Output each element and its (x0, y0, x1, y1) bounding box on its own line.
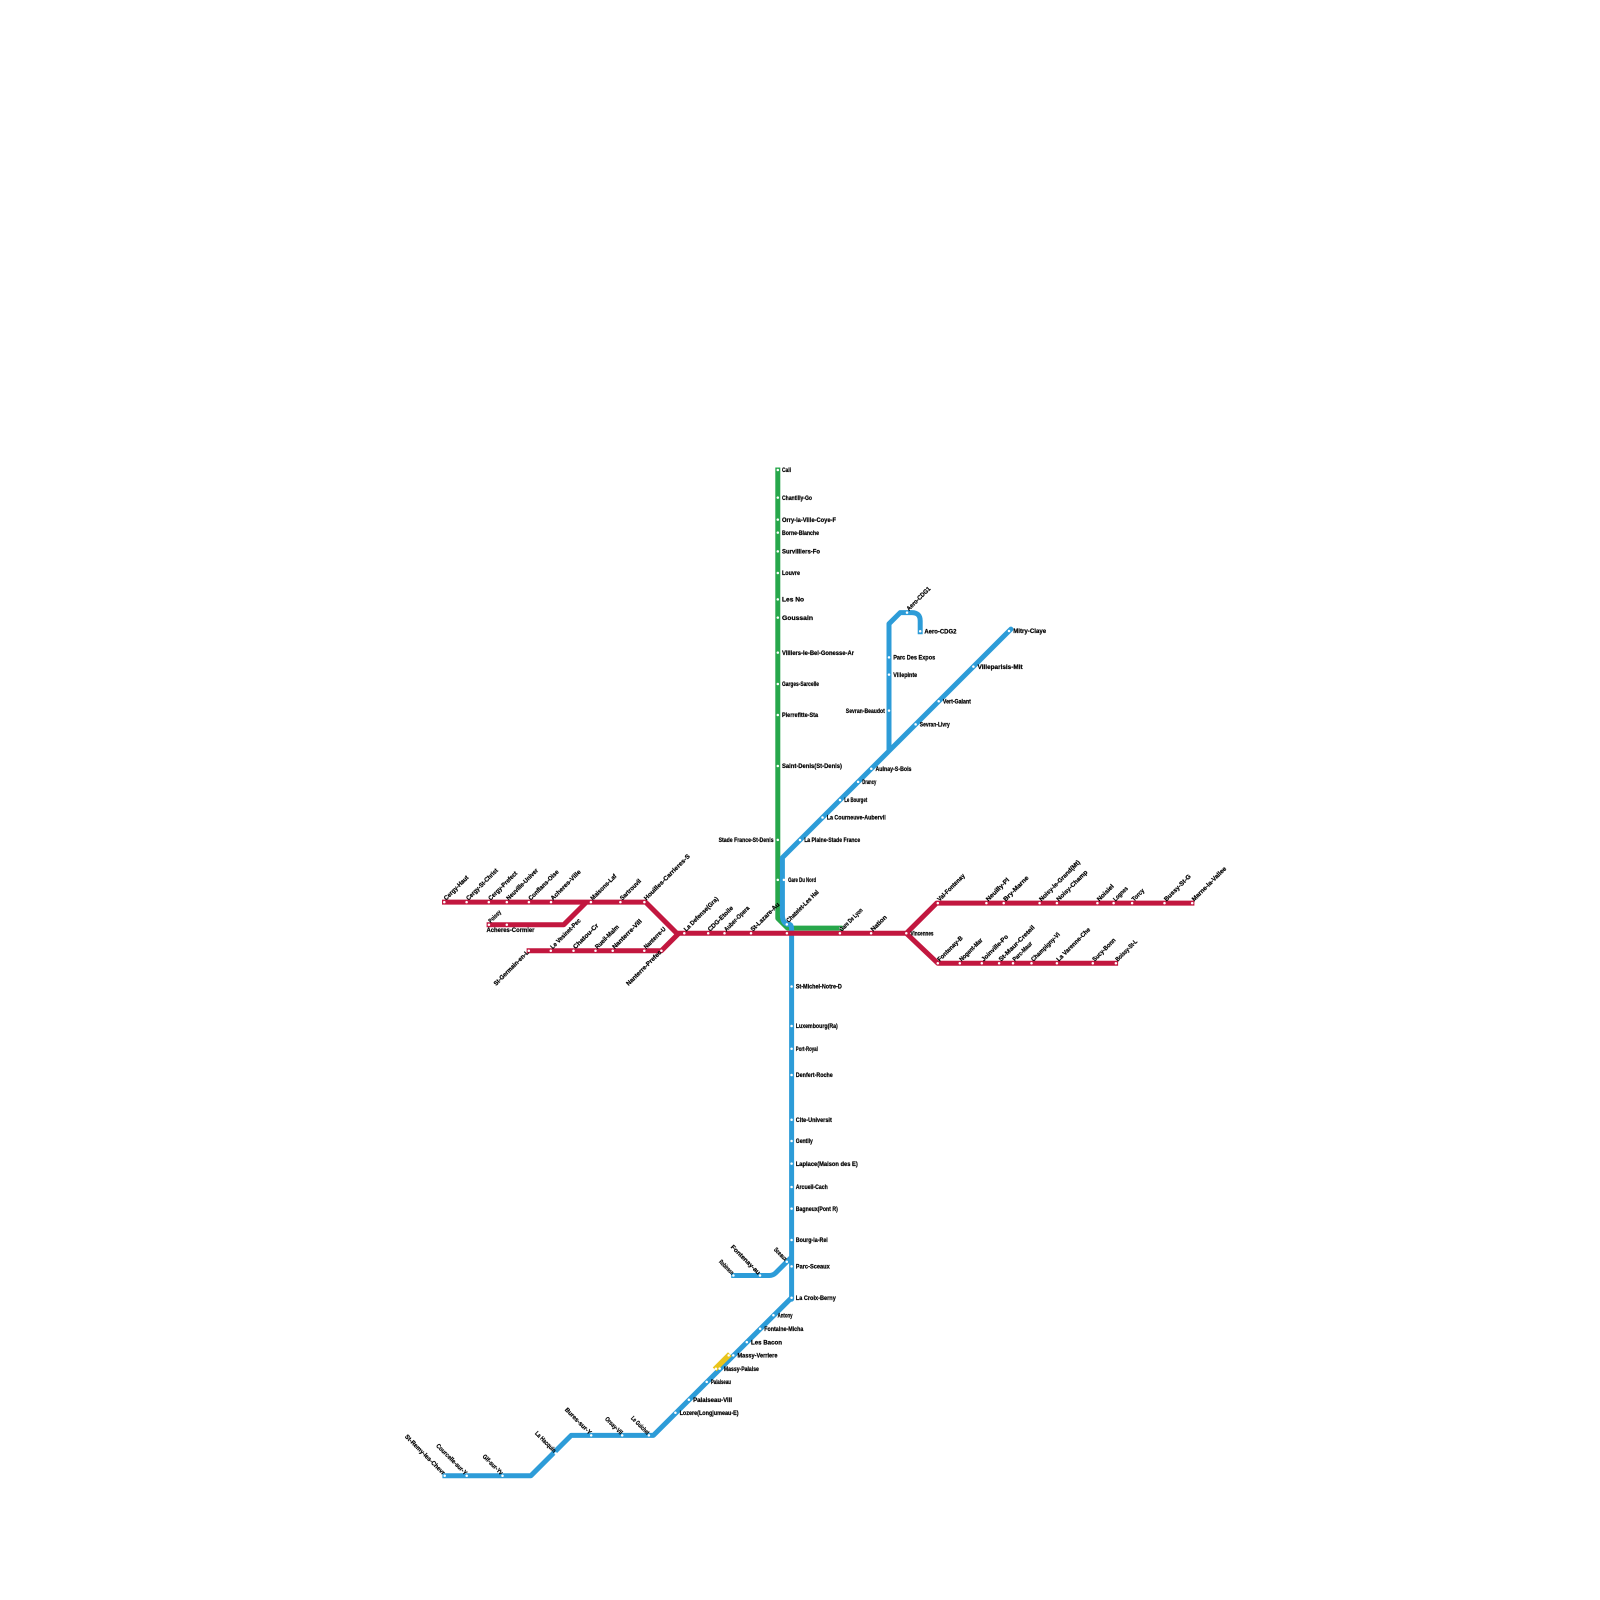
svg-text:Antony: Antony (778, 1312, 793, 1319)
svg-text:Luxembourg(Ra): Luxembourg(Ra) (796, 1023, 838, 1030)
station Le Guichet (629, 1415, 651, 1437)
station Bry-Marne (1002, 874, 1031, 904)
station Fontenay-B (936, 935, 965, 965)
station Palaiseau (705, 1379, 731, 1386)
station Parc-Maur (1011, 940, 1034, 964)
station La Croix-Berny (790, 1295, 836, 1302)
svg-text:Lozere(Longjumeau-E): Lozere(Longjumeau-E) (680, 1410, 739, 1417)
svg-text:Acheres-Cormier: Acheres-Cormier (487, 927, 536, 934)
station marker at 715.9,1368.8 (715, 1368, 718, 1371)
station Mitry-Claye (1008, 628, 1047, 635)
svg-text:Gentily: Gentily (796, 1138, 813, 1145)
station Chatelet-Les Hal (785, 889, 821, 926)
svg-text:St-Michel-Notre-D: St-Michel-Notre-D (796, 984, 842, 991)
station Massy-Palaise (718, 1366, 759, 1373)
station Garges-Sarcelle (777, 681, 820, 688)
station marker at 728.7,1355.4 (727, 1354, 730, 1357)
svg-text:Fontaine-Micha: Fontaine-Micha (764, 1326, 803, 1333)
station Fontaine-Micha (759, 1326, 804, 1333)
station Gare Du Nord (783, 877, 817, 884)
svg-text:Port-Royal: Port-Royal (796, 1046, 818, 1053)
station Boissy-St-L (1114, 938, 1139, 964)
station Rueil-Malm (594, 924, 621, 952)
station Cergy-Haut (443, 874, 471, 904)
station Orry-la-Ville-Coye-F (777, 517, 837, 524)
station Goussain (777, 615, 814, 622)
station Le Bourget (839, 797, 868, 804)
RER B south branch (blue) (442, 1298, 791, 1476)
station Aero-CDG1 (905, 585, 932, 614)
station Marne-la-Vallee (1191, 865, 1229, 904)
station Stade France-St-Denis (719, 837, 779, 844)
svg-text:Bourg-la-Rei: Bourg-la-Rei (796, 1237, 828, 1244)
station Survilliers-Fo (777, 549, 821, 556)
svg-text:Louvre: Louvre (782, 570, 800, 577)
station Joinville-Po (980, 933, 1010, 964)
station Bagneux(Pont R) (790, 1206, 837, 1213)
RER A west bottom branch (red) (527, 933, 679, 951)
station Palaiseau-Vill (688, 1397, 733, 1404)
svg-text:Aero-CDG2: Aero-CDG2 (924, 628, 956, 635)
station Sartrouvil (619, 878, 643, 904)
station Conflans-Oise (527, 868, 561, 903)
station Chatou-Cr (572, 922, 601, 952)
svg-text:Villeparisis-Mit: Villeparisis-Mit (978, 664, 1024, 671)
svg-text:Mitry-Claye: Mitry-Claye (1013, 628, 1046, 635)
svg-text:Vincennes: Vincennes (911, 931, 934, 938)
svg-text:La Plaine-Stade France: La Plaine-Stade France (804, 837, 860, 844)
station Noisy-le-Grand(Mt) (1038, 859, 1082, 904)
svg-text:La Courneuve-Aubervil: La Courneuve-Aubervil (827, 815, 886, 822)
station Laplace(Maison des E) (790, 1161, 857, 1168)
station Cite-Universit (790, 1117, 832, 1124)
station Noisy-Champ (1055, 869, 1089, 904)
station Nation (870, 914, 889, 935)
svg-text:Aulnay-S-Bois: Aulnay-S-Bois (876, 766, 912, 773)
station CDG-Etoile (707, 905, 736, 935)
station Le Vesinet-Pec (549, 917, 583, 952)
svg-text:Goussain: Goussain (782, 615, 813, 622)
svg-text:Les Bacon: Les Bacon (751, 1339, 782, 1346)
station St-Maur-Creteil (998, 924, 1037, 964)
svg-text:Laplace(Maison des E): Laplace(Maison des E) (796, 1161, 858, 1168)
station St-Germain-en-L (493, 949, 531, 987)
station Arcueil-Cach (790, 1184, 828, 1191)
station Massy-Verriere (732, 1353, 778, 1360)
RER B north-east + city trunk (blue) (782, 629, 1011, 1299)
station La Hacquin (533, 1430, 557, 1454)
station St-Michel-Notre-D (790, 984, 842, 991)
svg-text:Villepinte: Villepinte (893, 672, 917, 679)
RER B Robinson branch (blue) (731, 1257, 791, 1276)
station Sevran-Livry (914, 722, 950, 729)
svg-text:Orry-la-Ville-Coye-F: Orry-la-Ville-Coye-F (782, 517, 836, 524)
svg-text:Cite-Universit: Cite-Universit (796, 1117, 833, 1124)
station Saint-Denis(St-Denis) (777, 763, 842, 770)
station Louvre (777, 570, 801, 577)
station Parc-Sceaux (790, 1264, 830, 1271)
svg-text:Le Bourget: Le Bourget (844, 797, 868, 804)
station marker at 777.8,879.9 (777, 879, 780, 882)
station Neuilly-Pl (985, 877, 1011, 905)
station Auber-Opera (723, 905, 752, 935)
RER A lower east branch (red) (906, 933, 1118, 963)
svg-text:Gare Du Nord: Gare Du Nord (788, 877, 816, 884)
svg-text:Chantilly-Go: Chantilly-Go (782, 495, 812, 502)
station Nogent-Mar (958, 937, 984, 965)
station St-Lazare-Au (749, 901, 781, 934)
svg-text:La Croix-Berny: La Croix-Berny (796, 1295, 836, 1302)
station Les No (777, 597, 805, 604)
svg-text:Sevran-Livry: Sevran-Livry (920, 722, 950, 729)
station Denfert-Roche (790, 1072, 833, 1079)
RER A west middle branch (red) (487, 902, 587, 925)
station La Courneuve-Aubervil (821, 815, 886, 822)
svg-text:Arcueil-Cach: Arcueil-Cach (796, 1184, 828, 1191)
svg-text:Les No: Les No (782, 597, 804, 604)
station Courcelle-sur-Y (434, 1443, 468, 1477)
station Villiers-le-Bel-Gonesse-Ar (777, 650, 855, 657)
station Nanterre-Vill (611, 918, 644, 952)
station Cergy-Prefect (487, 870, 519, 904)
svg-text:Borne-Blanche: Borne-Blanche (782, 530, 819, 537)
svg-text:Stade France-St-Denis: Stade France-St-Denis (719, 837, 774, 844)
svg-text:Villiers-le-Bel-Gonesse-Ar: Villiers-le-Bel-Gonesse-Ar (782, 650, 855, 657)
svg-text:Denfert-Roche: Denfert-Roche (796, 1072, 833, 1079)
station La Plaine-Stade France (799, 837, 861, 844)
station Neuville-Univer (505, 867, 540, 903)
station Port-Royal (790, 1046, 818, 1053)
svg-text:Massy-Verriere: Massy-Verriere (738, 1353, 778, 1360)
svg-text:Palaiseau-Vill: Palaiseau-Vill (693, 1397, 732, 1404)
svg-text:Sevran-Beaudot: Sevran-Beaudot (846, 708, 886, 715)
Orlyval shuttle (yellow) (715, 1354, 730, 1369)
svg-text:Pierrefitte-Sta: Pierrefitte-Sta (782, 712, 818, 719)
station Chantilly-Go (777, 495, 813, 502)
station Maisons-Laf (589, 872, 619, 903)
station Lozere(Longjumeau-E) (674, 1410, 738, 1417)
svg-text:Bagneux(Pont R): Bagneux(Pont R) (796, 1206, 838, 1213)
station Gentily (790, 1138, 813, 1145)
station Aero-CDG2 (919, 628, 957, 635)
svg-text:Cali: Cali (782, 467, 791, 474)
station Vincennes (905, 931, 934, 938)
station Poissy (487, 909, 503, 926)
station Antony (772, 1312, 793, 1319)
station La Varenne-Che (1055, 926, 1092, 964)
station Villepinte (888, 672, 918, 679)
station Vert-Galant (937, 699, 971, 706)
station Parc Des Expos (888, 655, 936, 662)
station Orsay-Vil (603, 1416, 624, 1437)
station Gif-sur-Yv (481, 1453, 505, 1477)
station Houilles-Carrieres-S (643, 853, 692, 903)
station Pierrefitte-Sta (777, 712, 819, 719)
svg-text:Survilliers-Fo: Survilliers-Fo (782, 549, 820, 556)
svg-text:Vert-Galant: Vert-Galant (943, 699, 972, 706)
svg-text:Parc-Sceaux: Parc-Sceaux (796, 1264, 830, 1271)
station La Defense(Gra) (683, 896, 720, 935)
station Sevran-Beaudot (846, 708, 890, 715)
station Gare De Lyon (838, 907, 864, 935)
station marker at 786.9,933.3 (786, 932, 789, 935)
station marker at 840.3,928.3 (839, 927, 842, 930)
station Noisiel (1096, 883, 1116, 904)
station Nanterre-Prefec (625, 949, 664, 988)
svg-text:Garges-Sarcelle: Garges-Sarcelle (782, 681, 819, 688)
station Champigny-Vi (1030, 931, 1062, 964)
station Villeparisis-Mit (972, 664, 1023, 671)
station Cergy-St-Christ (465, 867, 500, 904)
station Borne-Blanche (777, 530, 820, 537)
station Bures-sur-Y (563, 1407, 593, 1437)
station St-Remy-les-Chevr (403, 1433, 447, 1477)
svg-text:Parc Des Expos: Parc Des Expos (893, 655, 935, 662)
station marker at 506.8,924.7 (506, 923, 509, 926)
station Cali (777, 467, 792, 474)
station Les Bacon (746, 1339, 783, 1346)
station Aulnay-S-Bois (870, 766, 912, 773)
station Acheres-Ville (549, 868, 583, 903)
svg-text:Palaiseau: Palaiseau (711, 1379, 731, 1386)
station Drancy (857, 779, 877, 786)
RER A west top branch + trunk + upper east branch (red) (442, 902, 1194, 933)
RER B CDG airport loop (blue) (889, 613, 920, 752)
station Bussy-St-G (1163, 873, 1193, 904)
station Lognes (1112, 885, 1130, 904)
RER D line (green) (778, 468, 843, 929)
station Bourg-la-Rei (790, 1237, 828, 1244)
svg-text:Massy-Palaise: Massy-Palaise (724, 1366, 759, 1373)
station Luxembourg(Ra) (790, 1023, 837, 1030)
station Fontenay-au (729, 1244, 762, 1277)
station Torcy (1131, 887, 1147, 904)
station Sucy-Bonn (1091, 937, 1117, 965)
station Nanterre-U (643, 926, 668, 952)
station Robinson (717, 1259, 735, 1277)
svg-text:Drancy: Drancy (862, 779, 876, 786)
svg-text:Saint-Denis(St-Denis): Saint-Denis(St-Denis) (782, 763, 842, 770)
station Val-Fontenay (936, 872, 967, 904)
station Sceaux (772, 1246, 789, 1263)
